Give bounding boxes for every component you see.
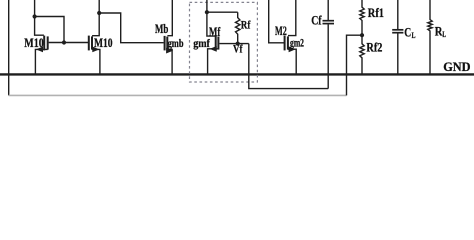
transistor Mf gate bar	[215, 36, 217, 50]
svg-text:Rf: Rf	[241, 17, 251, 31]
svg-text:gmb: gmb	[168, 36, 184, 50]
wire source M10 right	[92, 49, 100, 73]
svg-text:M10: M10	[24, 35, 43, 50]
node junction drain M10 left	[62, 40, 66, 44]
transistor M10 (left) gate riser wire	[35, 0, 44, 35]
wire source Mf	[208, 49, 219, 74]
arrow source M10 left	[36, 47, 43, 53]
wire feedback Vf to Cf bottom	[249, 44, 328, 89]
capacitor CL bottom lead	[397, 33, 399, 73]
wire drain M10 left to gate M10 right	[49, 42, 89, 44]
svg-text:Cf: Cf	[311, 12, 322, 27]
svg-text:Rf1: Rf1	[368, 6, 384, 20]
transistor Mb gate bar	[164, 36, 166, 51]
capacitor CL top lead	[397, 0, 399, 29]
wire top of M10 left	[35, 17, 64, 43]
svg-text:Vf: Vf	[233, 44, 243, 56]
capacitor CL plates	[392, 29, 403, 31]
transistor M10 (right) drain riser	[92, 0, 99, 36]
node gate Mf	[205, 10, 209, 14]
dashed box feedback block	[190, 2, 258, 82]
svg-text:L: L	[442, 29, 446, 39]
wire source Mb	[167, 49, 172, 73]
transistor M10 (right) gate bar	[88, 36, 90, 51]
transistor M10 (right) channel bar	[91, 36, 93, 49]
arrow source M10 right	[92, 47, 99, 53]
transistor M2 gate bar	[284, 36, 286, 51]
wire divider tap to feedback	[347, 35, 363, 95]
arrow source Mf	[210, 46, 217, 52]
transistor M10 (left) gate bar	[43, 36, 45, 51]
node drain M10 left	[33, 14, 37, 18]
svg-text:L: L	[412, 30, 416, 40]
svg-text:Rf2: Rf2	[366, 41, 382, 55]
arrow source M2	[289, 46, 296, 52]
transistor Mf gate riser	[207, 0, 216, 36]
resistor RL	[428, 0, 432, 74]
svg-text:gm2: gm2	[290, 35, 304, 49]
wire M10 right drain to Mb gate	[99, 13, 164, 43]
resistor Rf1	[360, 0, 364, 35]
node divider tap	[360, 33, 364, 37]
transistor M2 gate riser wire	[269, 0, 285, 43]
wire feedback bottom (gray)	[9, 94, 347, 96]
svg-text:Mb: Mb	[155, 21, 168, 36]
transistor M10 (left) channel bar	[47, 36, 49, 49]
ground rail GND	[0, 73, 474, 75]
wire Mf gate node to Rf top	[207, 11, 238, 13]
capacitor Cf bottom lead	[327, 24, 329, 88]
resistor Rf	[236, 12, 240, 43]
svg-text:M2: M2	[275, 23, 287, 38]
transistor Mf channel bar	[217, 37, 219, 50]
svg-text:gmf: gmf	[193, 36, 211, 50]
transistor M2 drain riser	[288, 0, 296, 36]
capacitor Cf top lead	[327, 0, 329, 20]
wire drain Mf node Vf	[219, 43, 248, 45]
node Vf	[236, 42, 240, 46]
svg-text:C: C	[404, 24, 411, 39]
svg-text:M10: M10	[94, 35, 113, 50]
wire source M2	[288, 49, 296, 74]
capacitor Cf plates	[323, 20, 335, 22]
wire feedback left vertical	[8, 0, 10, 95]
transistor Mb drain riser	[167, 0, 172, 36]
arrow source Mb	[166, 48, 173, 54]
svg-text:GND: GND	[443, 59, 470, 74]
wire source M10 left	[35, 49, 47, 73]
svg-text:Mf: Mf	[209, 24, 221, 39]
transistor Mb channel bar	[166, 37, 168, 50]
node drain M10 right	[97, 11, 101, 15]
transistor M2 channel bar	[287, 36, 289, 49]
resistor Rf2	[360, 35, 364, 74]
